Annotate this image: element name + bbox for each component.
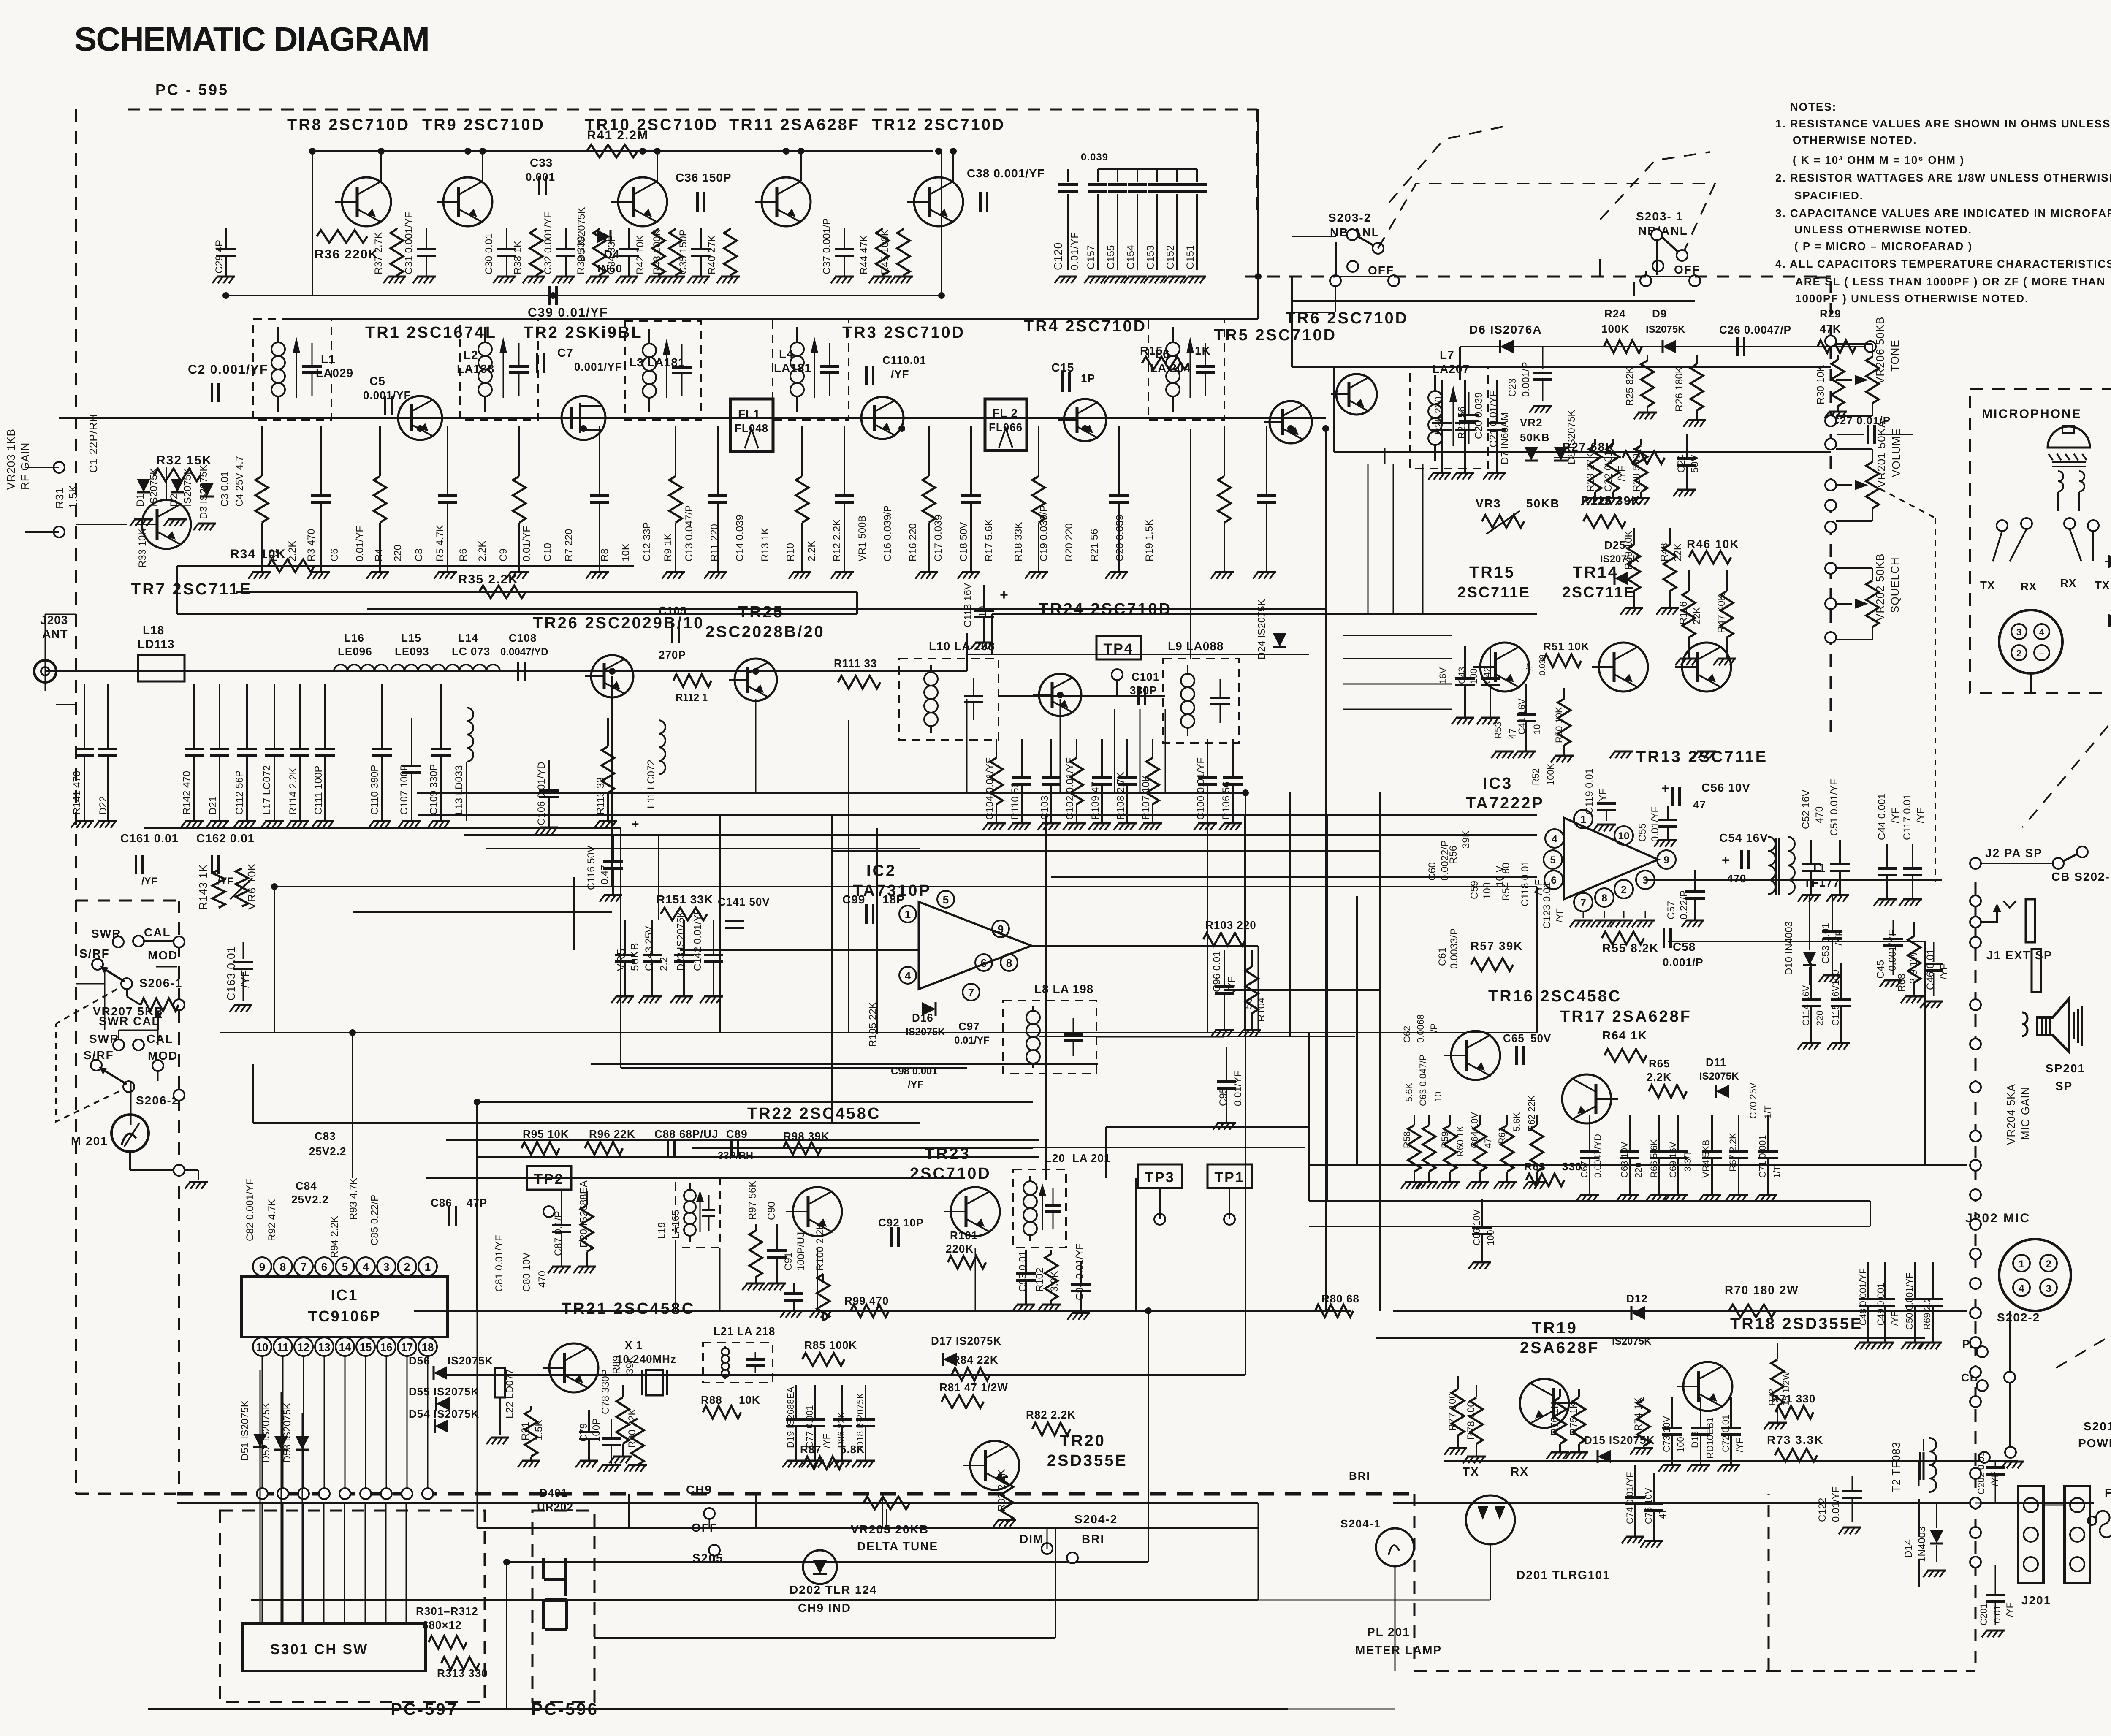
svg-text:VR205 20KB: VR205 20KB xyxy=(851,1523,929,1536)
svg-text:16V: 16V xyxy=(1438,667,1448,684)
svg-text:R25 82K: R25 82K xyxy=(1624,367,1636,406)
svg-text:C31 0.001/YF: C31 0.001/YF xyxy=(403,212,415,274)
svg-text:2: 2 xyxy=(1621,884,1626,895)
svg-text:C65: C65 xyxy=(1503,1032,1525,1044)
svg-text:R37 2.7K: R37 2.7K xyxy=(373,232,384,274)
svg-text:6.8K: 6.8K xyxy=(840,1443,865,1456)
svg-text:R108 2.7K: R108 2.7K xyxy=(1115,772,1126,820)
svg-text:( P = MICRO – MICROFARAD ): ( P = MICRO – MICROFARAD ) xyxy=(1794,240,1973,252)
svg-text:C112 56P: C112 56P xyxy=(234,770,245,815)
svg-text:–: – xyxy=(2039,648,2044,659)
svg-text:C81 0.01/YF: C81 0.01/YF xyxy=(494,1235,505,1292)
svg-text:S204-2: S204-2 xyxy=(1074,1513,1118,1526)
svg-text:17: 17 xyxy=(401,1341,413,1354)
svg-text:TP2: TP2 xyxy=(534,1171,564,1187)
svg-text:D14: D14 xyxy=(1903,1539,1914,1558)
svg-text:VR2: VR2 xyxy=(1520,416,1543,429)
svg-text:OFF: OFF xyxy=(1368,264,1394,277)
svg-text:RD10EB1: RD10EB1 xyxy=(1705,1417,1715,1459)
svg-text:C120: C120 xyxy=(1052,242,1064,270)
svg-text:33P/RH: 33P/RH xyxy=(718,1150,753,1161)
svg-text:220: 220 xyxy=(1633,1162,1644,1178)
svg-text:C111 100P: C111 100P xyxy=(313,765,324,815)
svg-text:R111 33: R111 33 xyxy=(834,657,877,670)
svg-text:4: 4 xyxy=(905,969,911,982)
svg-text:LC 073: LC 073 xyxy=(452,645,490,658)
svg-text:R98 39K: R98 39K xyxy=(783,1130,830,1142)
svg-text:CH9: CH9 xyxy=(686,1483,712,1496)
svg-text:D21: D21 xyxy=(207,796,219,815)
svg-text:R6: R6 xyxy=(458,548,469,561)
svg-text:RX: RX xyxy=(2060,577,2076,589)
svg-text:TR8 2SC710D: TR8 2SC710D xyxy=(287,116,410,134)
svg-text:C5: C5 xyxy=(369,374,385,388)
svg-text:C18 50V: C18 50V xyxy=(958,522,969,561)
svg-text:S202-2: S202-2 xyxy=(1997,1311,2040,1324)
svg-text:5.6K: 5.6K xyxy=(1404,1082,1414,1102)
svg-text:0.0033/P: 0.0033/P xyxy=(1449,928,1460,969)
svg-text:C101: C101 xyxy=(1131,670,1159,683)
svg-text:470: 470 xyxy=(1727,872,1746,885)
svg-text:/YF: /YF xyxy=(239,970,252,988)
svg-text:47K: 47K xyxy=(1820,323,1841,335)
svg-text:SCHEMATIC DIAGRAM: SCHEMATIC DIAGRAM xyxy=(74,20,429,58)
svg-text:C102 0.01/YF: C102 0.01/YF xyxy=(1064,757,1076,820)
svg-text:+/P: +/P xyxy=(1525,662,1535,675)
svg-text:LE093: LE093 xyxy=(395,645,429,658)
svg-text:BRI: BRI xyxy=(1082,1533,1104,1546)
svg-text:R64 1K: R64 1K xyxy=(1602,1029,1647,1042)
svg-text:C4 25V 4.7: C4 25V 4.7 xyxy=(234,456,245,507)
svg-text:R45 100K: R45 100K xyxy=(879,229,891,274)
svg-text:IS2075K: IS2075K xyxy=(448,1354,493,1367)
svg-text:C22 0.01: C22 0.01 xyxy=(1603,451,1614,492)
svg-text:C68 10V: C68 10V xyxy=(1619,1142,1630,1178)
svg-text:10: 10 xyxy=(1532,724,1542,735)
svg-text:D9: D9 xyxy=(1652,307,1667,320)
svg-text:LA181: LA181 xyxy=(774,361,811,374)
svg-text:FL1: FL1 xyxy=(738,407,760,420)
svg-text:C163 0.01: C163 0.01 xyxy=(225,946,237,1001)
svg-text:R21 56: R21 56 xyxy=(1089,529,1100,561)
svg-text:C26 0.0047/P: C26 0.0047/P xyxy=(1719,323,1791,336)
svg-text:R115 39K: R115 39K xyxy=(1581,494,1641,507)
svg-text:0.001/YF: 0.001/YF xyxy=(363,389,411,401)
svg-text:R10: R10 xyxy=(785,543,796,561)
svg-text:IC3: IC3 xyxy=(1483,775,1513,792)
svg-text:4: 4 xyxy=(363,1261,369,1273)
svg-text:R82 2.2K: R82 2.2K xyxy=(1026,1408,1076,1421)
svg-text:C154: C154 xyxy=(1125,245,1137,269)
svg-text:220: 220 xyxy=(392,545,404,561)
svg-text:IC2: IC2 xyxy=(866,862,896,880)
svg-text:S206-1: S206-1 xyxy=(139,976,182,990)
svg-text:1P: 1P xyxy=(1081,372,1095,385)
svg-text:C103: C103 xyxy=(1039,796,1050,820)
svg-text:R35 2.2K: R35 2.2K xyxy=(458,572,518,586)
svg-text:C8: C8 xyxy=(413,548,425,561)
svg-text:5: 5 xyxy=(943,893,949,906)
svg-text:R41 2.2M: R41 2.2M xyxy=(587,128,648,142)
svg-text:R3 470: R3 470 xyxy=(306,529,317,561)
svg-text:100: 100 xyxy=(1485,1230,1496,1245)
svg-text:TX: TX xyxy=(1980,579,1995,591)
svg-text:D54 IS2075K: D54 IS2075K xyxy=(409,1408,479,1420)
svg-text:TR7 2SC711E: TR7 2SC711E xyxy=(131,580,252,598)
svg-text:100K: 100K xyxy=(1545,763,1556,785)
svg-text:3.3/T: 3.3/T xyxy=(1682,1150,1693,1172)
svg-text:0.01/YF: 0.01/YF xyxy=(521,526,532,561)
svg-text:R94 2.2K: R94 2.2K xyxy=(329,1216,340,1258)
svg-text:TP4: TP4 xyxy=(1103,641,1133,657)
svg-text:R36 220K: R36 220K xyxy=(315,247,378,261)
svg-text:/YF: /YF xyxy=(1226,976,1237,992)
svg-text:/YF: /YF xyxy=(1555,908,1565,922)
svg-text:C107 100P: C107 100P xyxy=(399,764,410,815)
svg-text:5: 5 xyxy=(1550,854,1555,866)
svg-text:C109 330P: C109 330P xyxy=(428,764,440,815)
svg-text:R29: R29 xyxy=(1820,307,1841,320)
svg-text:C118 0.01: C118 0.01 xyxy=(1519,860,1531,906)
svg-text:C6: C6 xyxy=(329,548,340,561)
svg-text:D53 IS2075K: D53 IS2075K xyxy=(282,1402,293,1463)
svg-text:R142 470: R142 470 xyxy=(181,771,193,815)
svg-text:D15 IS2075K: D15 IS2075K xyxy=(1584,1434,1655,1446)
svg-text:C10: C10 xyxy=(542,543,554,561)
svg-text:L11 LC072: L11 LC072 xyxy=(646,759,657,808)
svg-text:TR24 2SC710D: TR24 2SC710D xyxy=(1039,600,1172,618)
svg-text:C92 10P: C92 10P xyxy=(878,1216,924,1229)
svg-text:/YF: /YF xyxy=(141,876,157,887)
svg-text:7: 7 xyxy=(301,1261,307,1273)
svg-text:L21 LA 218: L21 LA 218 xyxy=(714,1325,775,1337)
svg-text:R95 10K: R95 10K xyxy=(523,1128,569,1140)
svg-text:C99: C99 xyxy=(842,893,865,906)
svg-text:VR3: VR3 xyxy=(1476,497,1501,510)
svg-text:MICROPHONE: MICROPHONE xyxy=(1982,407,2082,421)
svg-text:+: + xyxy=(632,817,640,831)
svg-text:S/RF: S/RF xyxy=(79,947,110,960)
svg-text:3: 3 xyxy=(2016,627,2021,637)
svg-text:C9: C9 xyxy=(498,548,509,561)
svg-text:C36 150P: C36 150P xyxy=(676,171,732,184)
svg-text:/YF: /YF xyxy=(1915,808,1926,823)
svg-text:/YF: /YF xyxy=(1890,808,1901,823)
svg-text:R18 33K: R18 33K xyxy=(1013,522,1024,561)
svg-text:2.2: 2.2 xyxy=(658,957,670,971)
svg-text:L3 LA181: L3 LA181 xyxy=(629,356,685,369)
svg-text:R8: R8 xyxy=(599,548,611,561)
svg-text:DIM: DIM xyxy=(1020,1533,1044,1546)
svg-text:C35 150P: C35 150P xyxy=(678,229,689,274)
svg-text:C100 0.01/YF: C100 0.01/YF xyxy=(1195,757,1207,820)
svg-text:18: 18 xyxy=(422,1341,434,1354)
svg-text:D6 IS2076A: D6 IS2076A xyxy=(1469,323,1542,336)
svg-text:TR1 2SC1674L: TR1 2SC1674L xyxy=(365,324,497,342)
svg-text:+: + xyxy=(1000,587,1009,603)
svg-text:39K: 39K xyxy=(1460,830,1472,849)
svg-text:R110 56: R110 56 xyxy=(1009,782,1021,820)
svg-text:C88 68P/UJ: C88 68P/UJ xyxy=(654,1128,719,1140)
svg-text:0.01/YF: 0.01/YF xyxy=(354,526,366,561)
svg-text:RF GAIN: RF GAIN xyxy=(19,442,31,490)
svg-text:L2: L2 xyxy=(464,348,478,361)
svg-text:C19 0.039/P: C19 0.039/P xyxy=(1038,505,1050,561)
svg-text:S201: S201 xyxy=(2084,1420,2111,1433)
svg-text:25V2.2: 25V2.2 xyxy=(291,1193,328,1206)
svg-text:C58: C58 xyxy=(1673,940,1696,953)
svg-text:C201: C201 xyxy=(1978,1603,1989,1625)
svg-text:C7: C7 xyxy=(557,346,573,359)
svg-text:OFF: OFF xyxy=(1674,263,1700,276)
svg-text:C60: C60 xyxy=(1427,862,1438,881)
svg-text:C83: C83 xyxy=(315,1130,336,1142)
svg-text:R84 22K: R84 22K xyxy=(952,1354,999,1366)
svg-text:0.001/P: 0.001/P xyxy=(1663,956,1704,968)
svg-text:C15: C15 xyxy=(1051,361,1074,374)
svg-text:C98 0.001: C98 0.001 xyxy=(891,1066,938,1077)
svg-text:R89: R89 xyxy=(611,1356,622,1374)
svg-text:R109 47: R109 47 xyxy=(1090,781,1101,820)
svg-text:330P: 330P xyxy=(1130,684,1157,697)
svg-text:D19 IS2688EA: D19 IS2688EA xyxy=(785,1386,796,1448)
svg-text:1: 1 xyxy=(1580,814,1586,825)
svg-text:3: 3 xyxy=(2046,1283,2051,1294)
svg-text:/YF: /YF xyxy=(1889,1311,1900,1326)
svg-text:R87: R87 xyxy=(800,1443,822,1456)
svg-text:TR22 2SC458C: TR22 2SC458C xyxy=(747,1105,881,1123)
svg-text:LE096: LE096 xyxy=(338,645,372,658)
svg-text:D51 IS2075K: D51 IS2075K xyxy=(239,1400,251,1461)
svg-text:R71 330: R71 330 xyxy=(1771,1392,1815,1405)
svg-text:R151 33K: R151 33K xyxy=(657,893,713,906)
svg-text:1K: 1K xyxy=(1195,344,1211,357)
svg-text:C20 0.039: C20 0.039 xyxy=(1473,392,1484,439)
svg-text:C63 0.047/P: C63 0.047/P xyxy=(1418,1055,1428,1106)
svg-text:CAL: CAL xyxy=(144,926,171,939)
svg-text:2SC2028B/20: 2SC2028B/20 xyxy=(705,623,825,641)
svg-text:TR5 2SC710D: TR5 2SC710D xyxy=(1214,326,1337,344)
svg-text:R68: R68 xyxy=(1896,974,1907,992)
svg-text:0.01/YF: 0.01/YF xyxy=(1650,806,1661,842)
svg-text:D10 IN4003: D10 IN4003 xyxy=(1783,921,1795,975)
svg-text:SP: SP xyxy=(2055,1080,2073,1093)
svg-text:L17 LC072: L17 LC072 xyxy=(261,765,273,815)
svg-text:2SA628F: 2SA628F xyxy=(1520,1339,1600,1357)
svg-text:R97 56K: R97 56K xyxy=(747,1181,758,1220)
svg-text:D7 IN60AM: D7 IN60AM xyxy=(1499,412,1511,464)
svg-text:R101: R101 xyxy=(950,1229,978,1242)
svg-text:0.0068: 0.0068 xyxy=(1415,1014,1426,1043)
svg-text:15: 15 xyxy=(360,1341,372,1354)
svg-text:TR19: TR19 xyxy=(1532,1319,1578,1337)
svg-text:100: 100 xyxy=(1481,882,1493,899)
svg-text:C1 22P/RH: C1 22P/RH xyxy=(87,414,100,473)
svg-text:C141 50V: C141 50V xyxy=(718,895,770,908)
svg-text:L9 LA088: L9 LA088 xyxy=(1168,640,1224,653)
svg-text:CB S202-1: CB S202-1 xyxy=(2051,870,2111,883)
svg-text:C113 16V: C113 16V xyxy=(962,583,974,627)
svg-text:IS2075K: IS2075K xyxy=(1699,1071,1739,1082)
svg-text:R63: R63 xyxy=(1524,1160,1546,1173)
svg-text:C152: C152 xyxy=(1165,245,1176,269)
svg-text:R31: R31 xyxy=(53,487,66,509)
svg-text:D5 IS2075K: D5 IS2075K xyxy=(576,207,587,262)
svg-text:5.6K: 5.6K xyxy=(1511,1112,1522,1131)
svg-text:C20 0.039: C20 0.039 xyxy=(1114,515,1126,561)
svg-text:2.2K: 2.2K xyxy=(806,541,817,561)
svg-text:R38 1K: R38 1K xyxy=(512,241,524,274)
svg-text:R96 22K: R96 22K xyxy=(589,1128,635,1140)
svg-text:D2: D2 xyxy=(168,494,180,507)
svg-text:50KB: 50KB xyxy=(628,942,641,971)
svg-text:IS2075K: IS2075K xyxy=(182,468,193,507)
svg-text:0.01/YF: 0.01/YF xyxy=(954,1035,990,1046)
svg-text:C162 0.01: C162 0.01 xyxy=(196,832,255,845)
svg-text:UR202: UR202 xyxy=(537,1500,573,1513)
svg-text:47: 47 xyxy=(1507,729,1518,739)
svg-text:C45: C45 xyxy=(1875,960,1886,979)
svg-text:FL 2: FL 2 xyxy=(992,407,1018,420)
svg-text:UNLESS OTHERWISE NOTED.: UNLESS OTHERWISE NOTED. xyxy=(1794,223,1972,236)
svg-text:CAL: CAL xyxy=(147,1032,174,1045)
svg-text:MOD: MOD xyxy=(148,1049,178,1062)
svg-text:RX: RX xyxy=(1511,1465,1529,1478)
svg-text:IN60: IN60 xyxy=(597,262,622,275)
svg-text:R43 100K: R43 100K xyxy=(651,229,663,274)
svg-text:L18: L18 xyxy=(143,624,164,637)
svg-text:R5 4.7K: R5 4.7K xyxy=(434,525,446,561)
svg-text:C52 16V: C52 16V xyxy=(1800,790,1812,829)
svg-text:D56: D56 xyxy=(409,1354,430,1367)
svg-text:TR9 2SC710D: TR9 2SC710D xyxy=(422,116,545,134)
svg-text:OTHERWISE NOTED.: OTHERWISE NOTED. xyxy=(1793,134,1917,146)
svg-text:39K: 39K xyxy=(624,1356,636,1374)
svg-text:C104 0.01/YF: C104 0.01/YF xyxy=(984,757,996,820)
svg-text:S206-2: S206-2 xyxy=(136,1094,179,1107)
svg-text:R13 1K: R13 1K xyxy=(760,528,771,561)
svg-text:BRI: BRI xyxy=(1349,1470,1370,1482)
svg-text:R73 3.3K: R73 3.3K xyxy=(1767,1433,1823,1446)
svg-text:( K = 10³ OHM M = 10⁶ OHM: ( K = 10³ OHM M = 10⁶ OHM ) xyxy=(1793,154,1964,166)
svg-text:SPACIFIED.: SPACIFIED. xyxy=(1794,189,1864,202)
svg-text:47P: 47P xyxy=(467,1196,487,1209)
svg-text:C23: C23 xyxy=(1507,378,1518,397)
svg-text:330: 330 xyxy=(1562,1160,1582,1173)
svg-text:D24 IS2075K: D24 IS2075K xyxy=(1256,599,1267,659)
svg-text:2SC710D: 2SC710D xyxy=(910,1165,991,1183)
svg-text:IC1: IC1 xyxy=(331,1286,358,1304)
svg-text:/P: /P xyxy=(1429,1023,1439,1032)
svg-text:50KB: 50KB xyxy=(1526,497,1560,510)
svg-text:R7 220: R7 220 xyxy=(563,529,575,561)
svg-text:PL 201: PL 201 xyxy=(1367,1625,1410,1638)
svg-text:R56: R56 xyxy=(1448,846,1459,864)
svg-text:C78 330P: C78 330P xyxy=(600,1369,611,1414)
svg-text:VR204 5KA: VR204 5KA xyxy=(2005,1084,2017,1145)
svg-text:C33: C33 xyxy=(530,156,553,169)
svg-text:C3 0.01: C3 0.01 xyxy=(219,471,231,507)
svg-text:0.039: 0.039 xyxy=(1538,654,1547,675)
svg-text:C53 0.01: C53 0.01 xyxy=(1820,923,1832,964)
svg-text:C69 16V: C69 16V xyxy=(1668,1142,1678,1178)
svg-text:12: 12 xyxy=(298,1341,310,1354)
svg-text:C16 0.039/P: C16 0.039/P xyxy=(882,505,893,561)
svg-text:VR206 50KB: VR206 50KB xyxy=(1874,317,1886,384)
svg-text:R40 27K: R40 27K xyxy=(706,235,718,274)
svg-text:TF177: TF177 xyxy=(1804,876,1840,889)
svg-text:TR14: TR14 xyxy=(1573,564,1619,581)
svg-text:R301–R312: R301–R312 xyxy=(416,1605,478,1617)
svg-text:R57 39K: R57 39K xyxy=(1471,939,1523,952)
svg-text:TR3 2SC710D: TR3 2SC710D xyxy=(842,324,965,342)
svg-text:L13 LD033: L13 LD033 xyxy=(453,765,465,815)
svg-text:ARE SL ( LESS THAN 1000PF: ARE SL ( LESS THAN 1000PF ) OR ZF ( MORE… xyxy=(1795,275,2106,288)
svg-text:10K: 10K xyxy=(620,543,632,561)
svg-text:R30 10K: R30 10K xyxy=(1815,365,1826,404)
svg-text:0.0047/YD: 0.0047/YD xyxy=(500,646,548,658)
svg-text:0.22/P: 0.22/P xyxy=(1678,890,1690,920)
svg-text:F201 2A: F201 2A xyxy=(2105,1486,2111,1499)
svg-text:0.039: 0.039 xyxy=(1081,152,1108,163)
svg-text:10K: 10K xyxy=(739,1394,760,1406)
svg-text:C84: C84 xyxy=(296,1180,317,1192)
svg-text:R19 1.5K: R19 1.5K xyxy=(1144,519,1155,561)
svg-text:D1: D1 xyxy=(135,494,146,507)
svg-text:D202 TLR 124: D202 TLR 124 xyxy=(790,1583,877,1596)
svg-text:VR203 1KB: VR203 1KB xyxy=(5,429,17,490)
svg-text:C115 16V100: C115 16V100 xyxy=(1830,970,1841,1026)
svg-text:2SC711E: 2SC711E xyxy=(1457,583,1530,601)
svg-text:TX: TX xyxy=(2095,579,2110,591)
svg-text:2.2K: 2.2K xyxy=(287,541,298,561)
svg-text:C2 0.001/YF: C2 0.001/YF xyxy=(188,363,268,377)
svg-text:14: 14 xyxy=(339,1341,351,1354)
svg-text:NOTES:: NOTES: xyxy=(1790,100,1837,113)
svg-text:R26 180K: R26 180K xyxy=(1674,366,1685,412)
svg-text:680×12: 680×12 xyxy=(422,1619,461,1631)
svg-text:C57: C57 xyxy=(1666,901,1677,920)
svg-text:C91: C91 xyxy=(783,1252,794,1271)
svg-text:+: + xyxy=(1722,852,1730,868)
svg-text:+: + xyxy=(1661,781,1670,796)
svg-text:8: 8 xyxy=(1601,892,1607,904)
svg-text:C17 0.039: C17 0.039 xyxy=(933,515,944,561)
svg-text:C55: C55 xyxy=(1637,823,1648,842)
svg-text:C153: C153 xyxy=(1145,245,1156,269)
svg-text:11: 11 xyxy=(277,1341,289,1354)
svg-text:C157: C157 xyxy=(1085,245,1097,269)
svg-text:C59: C59 xyxy=(1469,881,1480,899)
svg-text:C24: C24 xyxy=(1676,454,1687,473)
svg-text:2.2K: 2.2K xyxy=(1647,1071,1671,1083)
svg-text:VR202 50KB: VR202 50KB xyxy=(1874,553,1886,621)
svg-text:7: 7 xyxy=(1580,897,1586,909)
svg-text:C108: C108 xyxy=(509,632,537,644)
svg-text:LA029: LA029 xyxy=(316,366,353,380)
svg-text:C106 0.01/YD: C106 0.01/YD xyxy=(536,762,547,825)
svg-text:25V2.2: 25V2.2 xyxy=(309,1145,346,1158)
svg-text:J203: J203 xyxy=(40,613,68,627)
svg-text:7: 7 xyxy=(968,986,974,999)
svg-text:MOD: MOD xyxy=(148,949,178,962)
svg-text:R143 1K: R143 1K xyxy=(197,864,209,910)
svg-text:2: 2 xyxy=(2016,648,2021,659)
svg-text:D17 IS2075K: D17 IS2075K xyxy=(931,1335,1001,1347)
svg-text:2SC711E: 2SC711E xyxy=(1562,583,1635,601)
svg-text:C75 10V: C75 10V xyxy=(1643,1488,1654,1524)
svg-text:C61: C61 xyxy=(1437,947,1448,966)
